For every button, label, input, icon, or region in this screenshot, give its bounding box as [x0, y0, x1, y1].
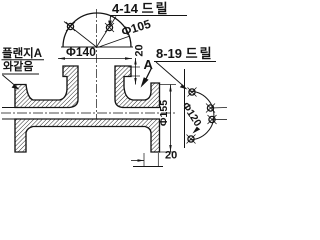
upper-right metal: branch flange right + wall + run top wall + right flange top — [115, 66, 160, 108]
upper-left metal: branch flange left + wall + run top wall + left flange top — [15, 66, 78, 108]
radial line to right bolt hole — [97, 17, 117, 48]
svg-text:Φ140: Φ140 — [66, 45, 96, 59]
aux bolt hole 4 — [187, 135, 196, 144]
dim phi155 — [160, 85, 176, 153]
aux bolt hole 2 — [206, 104, 227, 113]
vertical centerline of branch — [96, 9, 98, 120]
leader 4-14 drill — [108, 16, 112, 27]
svg-text:A: A — [144, 57, 154, 72]
svg-text:20: 20 — [165, 150, 177, 162]
bore line extensions left of flange face — [2, 107, 15, 109]
svg-text:플랜지A: 플랜지A — [2, 46, 42, 60]
aux bolt hole 1 — [188, 88, 197, 97]
dim 20 (branch flange thickness) — [129, 58, 140, 85]
radial line to left bolt hole — [64, 22, 97, 48]
svg-text:20: 20 — [134, 44, 146, 56]
svg-text:Φ155: Φ155 — [158, 100, 170, 126]
svg-text:Φ105: Φ105 — [120, 17, 153, 39]
bolt hole left (top view) — [66, 22, 75, 31]
svg-text:4-14 드릴: 4-14 드릴 — [112, 1, 170, 16]
bolt circle arc — [190, 91, 214, 139]
aux bolt hole 3 — [208, 115, 228, 124]
svg-text:Φ120: Φ120 — [179, 100, 203, 129]
bolt hole right (top view) — [105, 23, 114, 32]
leader to left flange — [3, 75, 20, 90]
break line — [184, 69, 186, 148]
svg-text:8-19 드릴: 8-19 드릴 — [156, 46, 214, 61]
semicircle flange outline — [61, 13, 133, 47]
dimension phi140 — [58, 57, 132, 60]
lower metal band: run bottom wall + both flange bottoms — [15, 119, 160, 152]
horizontal centerline of run pipe — [1, 112, 177, 114]
dim 20 (right flange thickness) — [131, 153, 163, 167]
leader phi105 — [98, 36, 131, 48]
svg-text:와같음: 와같음 — [3, 59, 33, 73]
